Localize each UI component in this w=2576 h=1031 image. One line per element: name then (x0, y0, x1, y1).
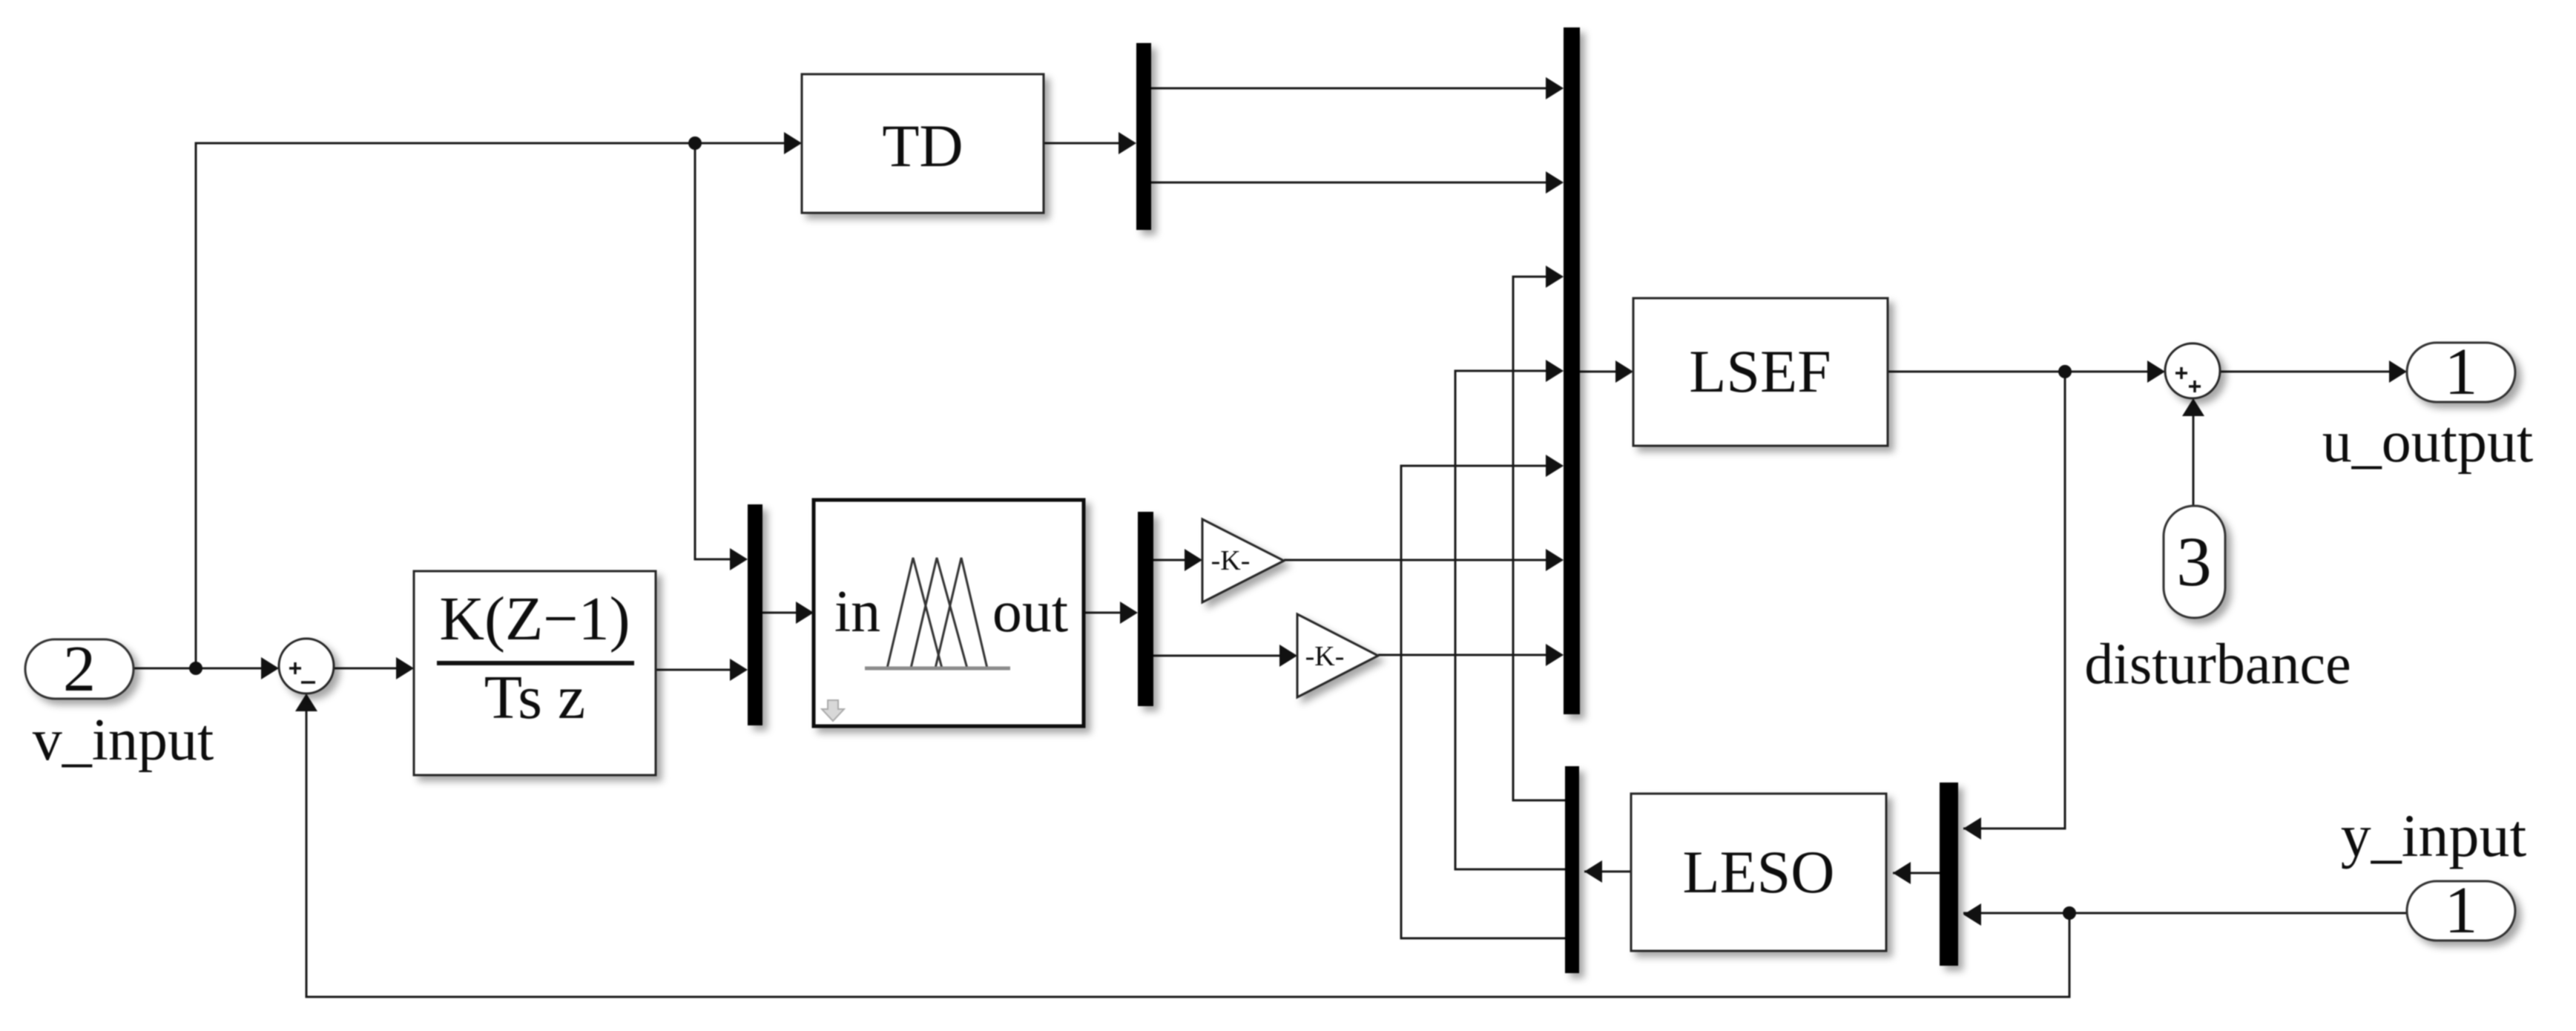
svg-text:TD: TD (882, 112, 963, 179)
svg-text:in: in (834, 579, 880, 645)
svg-text:3: 3 (2176, 522, 2212, 601)
svg-text:LSEF: LSEF (1689, 337, 1831, 405)
svg-text:-K-: -K- (1305, 641, 1345, 672)
svg-text:out: out (992, 579, 1068, 645)
svg-text:y_input: y_input (2341, 802, 2527, 869)
svg-text:Ts z: Ts z (484, 663, 585, 732)
svg-text:v_input: v_input (33, 708, 214, 773)
svg-text:K(Z−1): K(Z−1) (439, 584, 630, 653)
svg-text:u_output: u_output (2322, 409, 2533, 475)
svg-text:-K-: -K- (1211, 545, 1251, 576)
svg-text:disturbance: disturbance (2084, 631, 2351, 696)
svg-text:LESO: LESO (1683, 838, 1835, 906)
svg-text:2: 2 (63, 633, 96, 705)
svg-text:1: 1 (2445, 335, 2478, 409)
svg-text:1: 1 (2445, 874, 2478, 947)
